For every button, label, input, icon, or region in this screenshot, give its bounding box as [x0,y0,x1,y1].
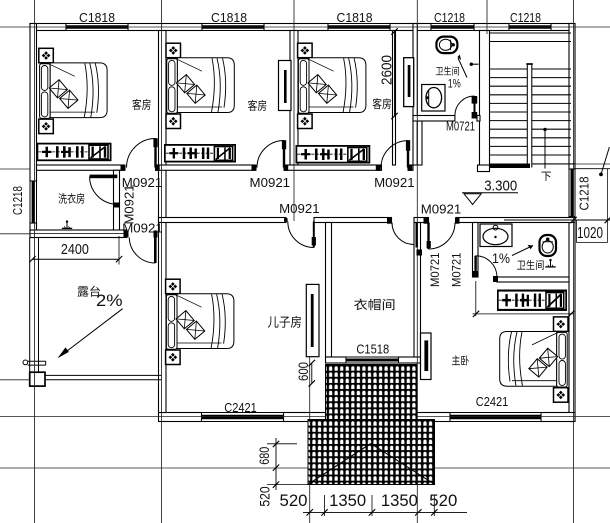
window C1818 #1 [66,24,128,31]
desk room2 east wall [279,61,292,111]
toilet master bath [540,235,557,256]
svg-text:C1818: C1818 [79,10,115,25]
desk master [421,333,432,380]
door master bedroom M0921 [427,223,429,250]
extension line across roof [416,420,418,485]
svg-text:M0921: M0921 [279,201,320,216]
floor drain master bath [545,259,555,267]
cloakroom west wall [326,223,332,358]
stair down arrow [543,128,546,131]
dim line under master wardrobe [473,313,575,315]
window C1218 #1 [431,24,474,31]
svg-text:520: 520 [257,486,273,506]
laundry south wall [30,230,126,238]
sink bathroom1 [422,85,445,112]
grid axis lines [34,0,36,523]
svg-text:M0921: M0921 [122,185,137,225]
svg-text:600: 600 [295,362,311,381]
svg-text:C1818: C1818 [337,10,373,25]
svg-text:1020: 1020 [577,225,603,242]
svg-text:M0921: M0921 [250,175,291,190]
terrace slope arrow 2% [61,309,123,356]
svg-text:C1218: C1218 [434,10,465,25]
door room1 M0921 [154,139,156,168]
bed son room [166,279,234,364]
corridor north wall (rooms bottom) [37,165,125,170]
window C1218 left (laundry) [30,181,37,223]
door room2 M0921 [283,141,285,168]
terrace west railing [29,238,31,373]
bed room3 [298,43,366,128]
floor drain laundry [62,220,72,228]
leader to window [601,147,609,174]
bed room1 [39,48,107,133]
desk son room [306,284,319,356]
room label bath2 [517,260,544,270]
dim 2600 room3 [394,32,396,117]
svg-text:M0721: M0721 [446,119,475,134]
door room3 M0921 [407,141,409,168]
room label son [268,316,301,328]
window C1218 #2 [509,24,551,31]
bed master (mirrored) [500,317,568,402]
door bathroom1 M0721 [474,96,476,116]
dim 2400 terrace [32,258,119,260]
bathroom2 south wall [497,277,569,282]
right exterior wall [569,24,575,170]
left exterior wall [30,24,37,182]
bottom dim chain 520/1350/1350/520 [303,511,467,513]
room label cloakroom [354,299,394,311]
window C1818 #3 [328,24,390,31]
svg-text:C1218: C1218 [577,177,592,211]
room label bath1 [436,66,459,75]
svg-text:M0721: M0721 [428,252,442,287]
svg-text:M0921: M0921 [421,202,462,217]
staircase treads [490,69,572,155]
svg-text:C2421: C2421 [224,400,257,415]
svg-text:2400: 2400 [61,241,89,258]
svg-text:C1518: C1518 [356,341,389,356]
window C2421 #1 [202,413,284,422]
room3 east wall [393,31,396,166]
svg-text:M0721: M0721 [449,252,463,287]
room label guest3 [373,98,391,109]
vent shaft [404,58,414,107]
stairwell top inner edge [490,32,572,34]
svg-text:C2421: C2421 [476,394,509,409]
bathroom1 south wall [413,116,455,122]
terrace faucet [23,360,28,365]
sink master bath [480,224,512,247]
wardrobe master [498,291,566,310]
bottom exterior wall [159,413,202,422]
window C1818 #2 [202,24,264,31]
svg-text:1350: 1350 [381,492,418,510]
dim 1020 [504,219,610,221]
room label guest2 [248,100,266,111]
terrace corner post [30,372,45,386]
svg-text:C1218: C1218 [10,186,25,215]
bed room2 [166,43,234,128]
shaft/bath1 west wall [413,24,417,166]
room label laundry [58,193,84,204]
window C2421 #2 [450,413,541,422]
wardrobe room2 [165,145,235,162]
room label guest1 [132,99,150,110]
door stop mark [471,63,479,65]
terrace south railing [45,374,162,376]
bathroom2 west wall [473,223,479,278]
stair center rail [526,64,528,168]
wardrobe room3 [296,146,369,163]
landing west wall lower [417,121,422,165]
stairwell west wall [480,31,490,172]
door son room M0921 [313,222,315,248]
svg-text:C1218: C1218 [510,10,541,25]
svg-text:520: 520 [429,492,457,510]
wardrobe room1 [37,144,110,161]
door bathroom2 M0721 [474,256,476,277]
dim 600 cloakroom [311,363,313,384]
top exterior wall [30,24,66,31]
door terrace M0921 [154,238,157,264]
room label terrace [78,286,100,297]
room label master [452,355,469,365]
slope arrow master bath [512,246,533,256]
door cloakroom M0721 [416,223,418,248]
svg-text:1%: 1% [492,250,510,266]
window C1218 right (stair landing) [569,169,575,217]
dim 680/520 left of roof [275,438,277,490]
svg-text:2%: 2% [96,291,123,310]
slope arrow bathroom1 [458,58,467,78]
svg-text:680: 680 [256,447,272,465]
roof tiled canopy [326,365,418,420]
svg-text:1%: 1% [448,76,461,90]
toilet bathroom1 [436,37,457,54]
svg-text:2600: 2600 [378,55,395,85]
stair landing edge (thick) [490,164,531,169]
svg-text:C1818: C1818 [211,10,247,25]
cloakroom south wall + window C1518 [326,357,347,363]
roof ridge lines [308,444,371,485]
stair top landing edge [490,41,572,43]
wall rooms1|2 + son room west wall [159,31,167,413]
svg-text:1350: 1350 [329,492,366,510]
svg-text:M0921: M0921 [374,175,415,190]
wall rooms2|3 [290,31,298,166]
svg-text:520: 520 [280,492,308,510]
svg-text:3.300: 3.300 [484,177,517,194]
door laundry M0921 [90,175,118,179]
corridor south wall [159,218,287,223]
cloakroom east wall [414,223,421,358]
stair bottom edge right flight [532,163,575,165]
laundry east wall [114,170,120,237]
